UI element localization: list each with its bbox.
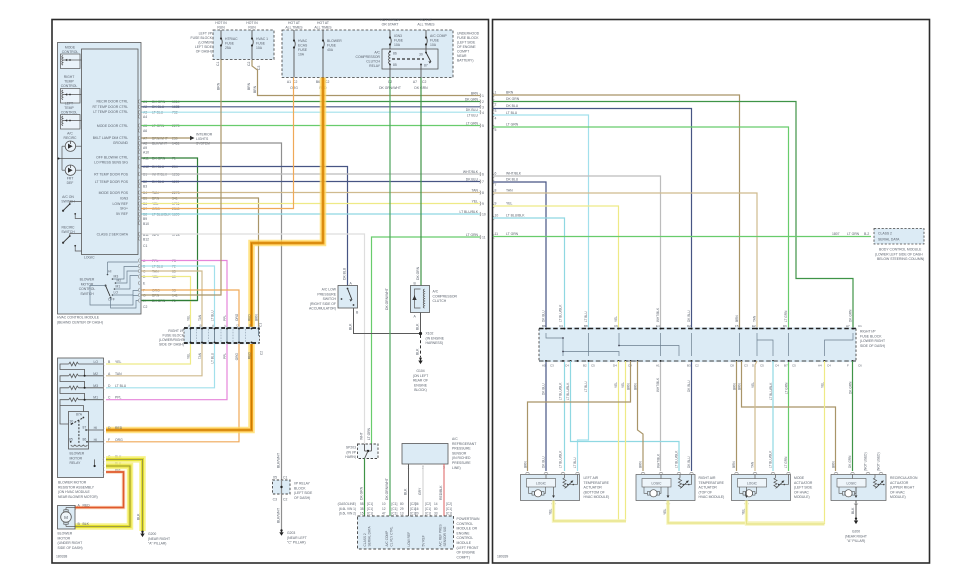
wire ORG to blower relay coil — [106, 344, 239, 442]
splice X102 — [419, 332, 422, 335]
svg-text:(LEFT FRONT: (LEFT FRONT — [457, 546, 479, 550]
wire TAN/YEL to actuator3 pin2 — [755, 361, 757, 471]
svg-text:A/C: A/C — [374, 51, 380, 55]
svg-text:YEL: YEL — [663, 508, 667, 515]
svg-text:REAR OF: REAR OF — [413, 379, 428, 383]
svg-text:B6: B6 — [316, 80, 320, 84]
svg-text:RIGHT: RIGHT — [64, 75, 75, 79]
wire A3 LT BLU to connector 4 — [142, 111, 481, 113]
wire YEL pair below strip — [618, 361, 620, 521]
svg-text:(TOP OF: (TOP OF — [699, 490, 713, 494]
svg-text:FUSE: FUSE — [394, 39, 404, 43]
svg-text:CONTROL: CONTROL — [79, 287, 96, 291]
svg-text:CLUTCH: CLUTCH — [433, 299, 447, 303]
svg-text:HOT AT: HOT AT — [317, 21, 329, 25]
resistor R3 — [69, 386, 79, 390]
svg-text:YEL: YEL — [751, 382, 755, 388]
svg-text:MODE: MODE — [65, 46, 76, 50]
fuse HVAC IGN3 FUSE 10A — [294, 30, 295, 78]
svg-text:ENGINE: ENGINE — [414, 383, 428, 387]
svg-text:C2: C2 — [260, 351, 264, 355]
svg-text:LT TEMP DOOR POS: LT TEMP DOOR POS — [95, 180, 129, 184]
strip pin dots — [545, 328, 854, 362]
svg-text:M: M — [64, 515, 68, 520]
svg-text:OF DASH): OF DASH) — [294, 496, 310, 500]
svg-text:LOW REF: LOW REF — [113, 202, 128, 206]
svg-text:[C1]: [C1] — [446, 507, 452, 511]
svg-text:25A: 25A — [225, 46, 232, 50]
svg-text:HVAC 1: HVAC 1 — [256, 37, 268, 41]
svg-text:BRN: BRN — [627, 383, 631, 390]
resistor chain links — [60, 364, 104, 412]
svg-text:YEL: YEL — [621, 382, 625, 388]
left I/P fuse block (dashed box) — [213, 30, 274, 60]
svg-text:LT BLU: LT BLU — [584, 311, 588, 322]
svg-text:BLOWER: BLOWER — [70, 452, 85, 456]
svg-text:B8: B8 — [143, 213, 147, 217]
svg-text:YEL: YEL — [472, 199, 479, 203]
svg-text:HOT AT: HOT AT — [420, 18, 432, 22]
svg-text:TAN: TAN — [751, 461, 755, 468]
svg-text:PPL: PPL — [223, 315, 227, 321]
wire A PPL — [142, 261, 228, 328]
svg-text:20: 20 — [415, 512, 419, 516]
svg-text:ECAS: ECAS — [298, 44, 308, 48]
svg-text:2: 2 — [482, 100, 484, 104]
svg-text:LT GRN: LT GRN — [785, 382, 789, 394]
svg-text:87A: 87A — [76, 413, 83, 417]
svg-text:(NOT USED): (NOT USED) — [864, 452, 868, 471]
svg-text:LT BLU/BLK: LT BLU/BLK — [459, 210, 478, 214]
svg-text:BLK: BLK — [416, 348, 420, 355]
svg-text:B: B — [199, 324, 203, 326]
svg-text:CONTROL: CONTROL — [61, 111, 78, 115]
svg-text:4: 4 — [482, 111, 484, 115]
svg-text:LO: LO — [114, 291, 119, 295]
svg-text:HOT IN RUN: HOT IN RUN — [380, 18, 400, 22]
wire A1 DK GRN to connector 2 — [142, 101, 481, 103]
svg-text:G200: G200 — [852, 530, 860, 534]
svg-text:BLK/WHT: BLK/WHT — [277, 508, 281, 523]
module pin connector arcs — [139, 100, 140, 303]
svg-text:(LOWER/RIGHT: (LOWER/RIGHT — [159, 338, 184, 342]
svg-text:C4: C4 — [565, 364, 569, 368]
svg-text:OF HVAC: OF HVAC — [890, 490, 905, 494]
wire D YEL — [142, 277, 191, 328]
svg-text:BLK: BLK — [851, 507, 855, 514]
fuse HTR/AC FUSE 25A — [221, 30, 222, 60]
svg-text:A/C: A/C — [433, 290, 439, 294]
svg-text:IGN3: IGN3 — [394, 34, 402, 38]
svg-text:BRN: BRN — [738, 383, 742, 390]
svg-text:LOGIC: LOGIC — [536, 482, 547, 486]
svg-text:LOGIC: LOGIC — [652, 482, 663, 486]
svg-text:(ON LEFT: (ON LEFT — [413, 374, 428, 378]
wire BLK dashed to G104 — [420, 335, 422, 357]
svg-text:HVAC MODULE): HVAC MODULE) — [584, 495, 610, 499]
svg-text:RT TEMP DOOR CTRL: RT TEMP DOOR CTRL — [92, 105, 128, 109]
svg-text:33: 33 — [434, 512, 438, 516]
svg-text:FRT: FRT — [67, 177, 74, 181]
svg-text:CONTROL: CONTROL — [457, 522, 474, 526]
wire A12 DK BLU 204 to pressure switch — [142, 167, 348, 286]
svg-text:C1: C1 — [858, 324, 862, 328]
svg-text:OFF BLOW/HI CTRL: OFF BLOW/HI CTRL — [96, 155, 128, 159]
svg-text:C4: C4 — [775, 364, 779, 368]
ground G203 — [280, 529, 282, 531]
svg-text:(NOT USED): (NOT USED) — [877, 452, 881, 471]
svg-text:SIDE OF DASH): SIDE OF DASH) — [860, 344, 885, 348]
svg-text:BRN: BRN — [217, 82, 221, 90]
PCM connector box — [358, 516, 454, 549]
svg-text:80: 80 — [400, 502, 404, 506]
svg-text:3: 3 — [482, 106, 484, 110]
strip pin labels — [542, 324, 862, 368]
svg-text:LO: LO — [93, 360, 98, 364]
svg-text:OFF: OFF — [108, 298, 115, 302]
svg-text:B6: B6 — [143, 202, 147, 206]
switch position wires — [90, 262, 138, 308]
svg-text:B8: B8 — [584, 324, 588, 328]
svg-text:ORG: ORG — [115, 438, 123, 442]
svg-text:B10: B10 — [143, 222, 149, 226]
svg-text:WHT/BLK: WHT/BLK — [656, 307, 660, 322]
svg-text:A4: A4 — [818, 364, 822, 368]
wire A5 LT GRN to connector 5 — [142, 125, 481, 127]
svg-text:(NEAR LEFT: (NEAR LEFT — [287, 536, 307, 540]
svg-text:SIDE OF DASH): SIDE OF DASH) — [58, 546, 83, 550]
svg-text:(LEFT SIDE: (LEFT SIDE — [294, 491, 313, 495]
svg-text:C3: C3 — [273, 498, 277, 502]
svg-text:C5: C5 — [760, 364, 764, 368]
svg-text:DK GRN: DK GRN — [849, 381, 853, 394]
svg-text:COMPRESSOR: COMPRESSOR — [433, 294, 458, 298]
svg-text:RECIR DOOR CTRL: RECIR DOOR CTRL — [97, 100, 129, 104]
svg-text:6: 6 — [482, 173, 484, 177]
svg-text:MODULE): MODULE) — [794, 495, 810, 499]
svg-text:DK BLU: DK BLU — [687, 310, 691, 322]
svg-text:C1: C1 — [259, 323, 263, 327]
svg-text:[C1]: [C1] — [392, 507, 398, 511]
wire 4 LT BLU — [493, 115, 589, 471]
svg-text:5V REF: 5V REF — [116, 212, 128, 216]
svg-text:(LEFT SIDE: (LEFT SIDE — [794, 486, 813, 490]
svg-text:OF HVAC: OF HVAC — [794, 490, 809, 494]
svg-text:PRESSURE: PRESSURE — [452, 447, 471, 451]
svg-text:1: 1 — [482, 94, 484, 98]
svg-text:3: 3 — [495, 109, 497, 113]
svg-text:C6: C6 — [614, 324, 618, 328]
svg-text:6: 6 — [495, 172, 497, 176]
svg-text:WHT/BLK: WHT/BLK — [656, 377, 660, 392]
svg-text:DK GRN: DK GRN — [848, 455, 852, 468]
svg-text:[C1]: [C1] — [392, 502, 398, 506]
svg-text:F: F — [224, 325, 228, 327]
svg-text:1: 1 — [495, 91, 497, 95]
svg-text:COMPT: COMPT — [457, 50, 469, 54]
svg-text:SWITCH: SWITCH — [80, 292, 94, 296]
svg-text:(RIGHT SIDE OF: (RIGHT SIDE OF — [310, 302, 336, 306]
svg-text:BLK: BLK — [416, 323, 420, 330]
strip cell separators — [197, 329, 246, 342]
svg-text:C3: C3 — [550, 364, 554, 368]
svg-text:C6: C6 — [858, 364, 862, 368]
svg-text:DK BLU: DK BLU — [466, 108, 479, 112]
svg-text:C3: C3 — [559, 324, 563, 328]
svg-text:BLOWER MOTOR: BLOWER MOTOR — [58, 481, 87, 485]
svg-text:RECIRC: RECIRC — [64, 136, 78, 140]
highlighted wire BLK motor ground — [75, 466, 130, 527]
svg-text:SERIAL DATA: SERIAL DATA — [368, 525, 372, 546]
svg-text:OF ENGINE: OF ENGINE — [457, 45, 476, 49]
svg-text:CLASS 2 SER DATA: CLASS 2 SER DATA — [97, 233, 129, 237]
svg-text:C2: C2 — [247, 62, 251, 66]
svg-text:BRN: BRN — [247, 82, 251, 90]
svg-text:TAN: TAN — [471, 188, 478, 192]
svg-text:POWERTRAIN: POWERTRAIN — [457, 517, 480, 521]
svg-text:A/C COMP: A/C COMP — [430, 34, 448, 38]
svg-text:C5: C5 — [591, 364, 595, 368]
wire 2 DK GRN — [493, 102, 853, 329]
wire BRN jog to actuator4 pin1 — [742, 361, 836, 471]
svg-text:BLOWER: BLOWER — [58, 532, 73, 536]
wire DK GRN splice to PCM — [364, 459, 366, 517]
svg-text:(NEAR RIGHT: (NEAR RIGHT — [148, 537, 170, 541]
svg-text:B1: B1 — [143, 173, 147, 177]
svg-text:LINE): LINE) — [452, 466, 461, 470]
svg-text:12: 12 — [382, 507, 386, 511]
svg-text:FUSE BLOCK: FUSE BLOCK — [191, 36, 213, 40]
resistor R2 — [69, 374, 79, 378]
wire 7 DK BLU — [493, 182, 546, 471]
svg-text:A5: A5 — [542, 364, 546, 368]
relay coil — [389, 52, 391, 64]
svg-text:2: 2 — [495, 102, 497, 106]
svg-text:BKLT LAMP DIM CTRL: BKLT LAMP DIM CTRL — [93, 136, 128, 140]
svg-text:RIGHT I/P: RIGHT I/P — [860, 330, 876, 334]
svg-text:"A" PILLAR): "A" PILLAR) — [847, 539, 865, 543]
svg-text:TAN: TAN — [198, 314, 202, 321]
svg-text:RED: RED — [83, 503, 91, 507]
wire BRN to actuator3 pin1 — [736, 361, 738, 471]
svg-text:DK GRN: DK GRN — [416, 266, 420, 280]
wire 11 LT GRN to BCM — [493, 236, 871, 238]
svg-text:C2: C2 — [283, 498, 287, 502]
svg-text:(LOWER: (LOWER — [198, 41, 212, 45]
svg-text:MODULE OR: MODULE OR — [457, 527, 478, 531]
svg-text:180339: 180339 — [497, 555, 508, 559]
svg-text:58: 58 — [360, 502, 364, 506]
svg-text:A7: A7 — [413, 80, 417, 84]
svg-text:BLOCK: BLOCK — [294, 486, 306, 490]
svg-text:NEAR: NEAR — [457, 54, 467, 58]
svg-text:[C1]: [C1] — [425, 512, 431, 516]
svg-text:BRN: BRN — [735, 315, 739, 322]
ground G200 (left page) — [141, 531, 143, 533]
svg-text:(GASOLINE): (GASOLINE) — [338, 502, 356, 506]
svg-text:FUSE BLOCK: FUSE BLOCK — [163, 334, 185, 338]
resistor pin labels — [93, 360, 126, 472]
svg-text:A/C: A/C — [452, 437, 458, 441]
svg-text:LT GRN: LT GRN — [506, 123, 519, 127]
wire YEL right to junction — [824, 361, 826, 524]
svg-text:HI: HI — [108, 270, 111, 274]
svg-text:CONTROL: CONTROL — [457, 536, 474, 540]
wire BLK from switch to X102 — [354, 308, 420, 334]
svg-text:BRN: BRN — [524, 461, 528, 468]
relay pin stubs — [389, 65, 391, 78]
svg-text:LT BLU: LT BLU — [467, 113, 479, 117]
svg-text:UNDERHOOD: UNDERHOOD — [457, 32, 480, 36]
svg-text:PRESSURE: PRESSURE — [452, 461, 471, 465]
svg-text:HVAC: HVAC — [298, 39, 308, 43]
svg-text:LOW REF: LOW REF — [407, 532, 411, 547]
button bus rail — [61, 146, 63, 170]
svg-text:BRN: BRN — [255, 314, 259, 321]
svg-text:DK GRN: DK GRN — [465, 97, 479, 101]
svg-text:RUN: RUN — [217, 26, 225, 30]
svg-text:B4: B4 — [143, 191, 147, 195]
wire BRN to actuator2 pin1 — [638, 361, 644, 471]
svg-text:LEFT SIDE: LEFT SIDE — [195, 45, 213, 49]
svg-text:A9: A9 — [143, 146, 147, 150]
svg-text:LEFT I/P: LEFT I/P — [199, 32, 213, 36]
svg-text:RED: RED — [248, 314, 252, 321]
svg-text:MODE DOOR POS: MODE DOOR POS — [99, 191, 129, 195]
wire A11 DK GRN 71 loop to pin H — [142, 158, 198, 301]
svg-text:ORG: ORG — [235, 313, 239, 321]
svg-text:YEL: YEL — [115, 360, 122, 364]
svg-text:TEMPERATURE: TEMPERATURE — [699, 481, 725, 485]
svg-text:G203: G203 — [287, 531, 295, 535]
svg-text:HVAC MODULE): HVAC MODULE) — [699, 495, 725, 499]
svg-text:B9: B9 — [143, 217, 147, 221]
wire B2 DK BLU to connector 7 — [142, 181, 481, 183]
wire B5 BRN 341 down to fuse block strip — [142, 198, 259, 328]
svg-text:RED/BLK: RED/BLK — [439, 485, 443, 500]
svg-text:ALL TIMES: ALL TIMES — [314, 26, 332, 30]
svg-text:LT BLU: LT BLU — [584, 381, 588, 392]
svg-text:DK GRN/WHT: DK GRN/WHT — [385, 478, 389, 500]
svg-text:9: 9 — [482, 202, 484, 206]
svg-text:85: 85 — [69, 437, 73, 441]
svg-text:A10: A10 — [143, 151, 149, 155]
svg-text:WHT/BLK: WHT/BLK — [152, 173, 168, 177]
svg-text:C1: C1 — [283, 476, 287, 480]
svg-text:DK BLU: DK BLU — [542, 310, 546, 322]
svg-text:BRN: BRN — [506, 91, 514, 95]
svg-text:LT GRN: LT GRN — [784, 310, 788, 322]
wire G BRN from HTR/AC fuse — [142, 60, 222, 296]
svg-text:DK BLU: DK BLU — [466, 177, 479, 181]
wire relay 30 to resistor rail — [60, 406, 69, 425]
svg-text:LEFT AIR: LEFT AIR — [584, 476, 599, 480]
svg-text:K: K — [211, 324, 215, 326]
wire LT GRN 1807 from splice to connector 11 — [372, 237, 481, 444]
svg-text:F5: F5 — [735, 324, 739, 328]
svg-text:RELAY: RELAY — [70, 461, 82, 465]
svg-text:(UNDER RIGHT: (UNDER RIGHT — [58, 541, 83, 545]
svg-text:BRN: BRN — [634, 383, 638, 390]
rotated wire labels below strip — [542, 377, 853, 400]
wire A7 BRN/WHT to interior lights — [142, 137, 191, 139]
svg-text:LT GRN: LT GRN — [466, 233, 479, 237]
svg-text:ALL TIMES: ALL TIMES — [285, 26, 303, 30]
svg-text:10A: 10A — [394, 43, 401, 47]
svg-text:(NEAR RIGHT: (NEAR RIGHT — [845, 534, 867, 538]
svg-text:13: 13 — [400, 512, 404, 516]
svg-text:SIG+: SIG+ — [120, 207, 128, 211]
svg-text:FUSE: FUSE — [298, 48, 308, 52]
svg-text:MOTOR: MOTOR — [58, 536, 71, 540]
front defrost button — [65, 165, 75, 175]
svg-text:F: F — [108, 438, 110, 442]
svg-text:16: 16 — [415, 507, 419, 511]
svg-text:A/C LOW: A/C LOW — [322, 288, 337, 292]
wire LT BLU to resistor M3 — [106, 344, 215, 388]
svg-text:15: 15 — [360, 512, 364, 516]
svg-text:36: 36 — [415, 502, 419, 506]
svg-text:80: 80 — [434, 507, 438, 511]
svg-text:MODE DOOR CTRL: MODE DOOR CTRL — [97, 124, 128, 128]
wire B1 WHT/BLK to connector 6 — [142, 173, 481, 175]
highlighted wire PPL motor feed — [75, 472, 124, 508]
page-edge connector arcs (right page) — [493, 93, 494, 239]
wire 10 LT BLU/BLK — [493, 218, 565, 471]
svg-text:F: F — [847, 364, 849, 368]
svg-text:HOT IN: HOT IN — [246, 21, 258, 25]
page border right — [493, 20, 930, 564]
svg-text:RIGHT I/P: RIGHT I/P — [168, 329, 184, 333]
svg-text:B-2: B-2 — [864, 232, 869, 236]
resistor assembly pin connector arcs — [75, 362, 104, 529]
strip internal links — [546, 333, 853, 356]
wire TAN to resistor M2 — [106, 344, 202, 376]
relay coil — [71, 445, 88, 446]
svg-text:TEMPERATURE: TEMPERATURE — [584, 481, 610, 485]
svg-text:DEF: DEF — [67, 181, 74, 185]
svg-text:E: E — [187, 324, 191, 326]
svg-text:CLASS 2: CLASS 2 — [363, 533, 367, 546]
svg-text:CONTROL: CONTROL — [62, 50, 79, 54]
wire B11 WHT to splice SP203 — [142, 234, 365, 444]
svg-text:E4: E4 — [656, 324, 660, 328]
svg-text:BLOCK): BLOCK) — [414, 388, 427, 392]
svg-text:A4: A4 — [143, 115, 147, 119]
svg-text:DK GRN: DK GRN — [360, 486, 364, 500]
svg-text:LOGIC: LOGIC — [747, 482, 758, 486]
svg-text:FUSE BLOCK: FUSE BLOCK — [860, 334, 882, 338]
svg-text:BLK: BLK — [83, 522, 90, 526]
svg-text:[C1]: [C1] — [367, 512, 373, 516]
svg-text:X102: X102 — [426, 332, 434, 336]
svg-text:BLK/WHT: BLK/WHT — [277, 453, 281, 468]
underhood fuse block (dashed box) — [282, 30, 453, 78]
svg-text:C2: C2 — [143, 305, 147, 309]
svg-text:LOGIC: LOGIC — [847, 482, 858, 486]
svg-text:PRESSURE: PRESSURE — [317, 292, 336, 296]
svg-text:(LEFT SIDE: (LEFT SIDE — [457, 41, 476, 45]
svg-text:B3: B3 — [143, 185, 147, 189]
svg-text:X5: X5 — [273, 476, 277, 480]
svg-text:29: 29 — [400, 507, 404, 511]
wire BLK clutch to X102 — [420, 313, 422, 334]
svg-text:BLK: BLK — [137, 513, 141, 520]
svg-text:87: 87 — [83, 426, 87, 430]
svg-text:5: 5 — [495, 128, 497, 132]
svg-text:LOGIC: LOGIC — [84, 256, 95, 260]
svg-text:LT TEMP DOOR CTRL: LT TEMP DOOR CTRL — [93, 110, 128, 114]
